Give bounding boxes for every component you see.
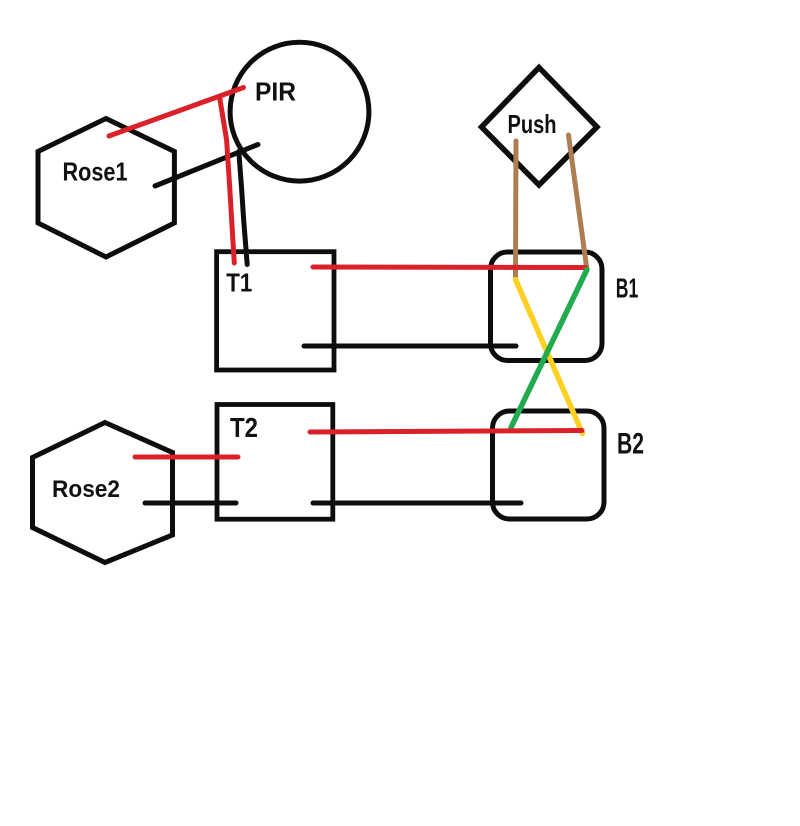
lamp B2 (rounded square)	[493, 411, 605, 519]
ceiling rose Rose1 (hexagon)	[38, 119, 174, 258]
wire yellow B1 to B2	[516, 280, 583, 434]
PIR sensor (circle)	[230, 42, 369, 181]
wire black Rose2 to T2 (neutral)	[145, 501, 236, 506]
wire black T1 to B1 (neutral)	[304, 344, 516, 349]
lamp B1 (rounded square)	[491, 252, 603, 361]
transformer T2 (square)	[217, 405, 333, 520]
wire brown Push to B1 left	[513, 141, 519, 279]
svg-text:Rose2: Rose2	[52, 476, 120, 503]
svg-text:Rose1: Rose1	[63, 157, 128, 187]
wire green B1 to B2	[511, 270, 587, 428]
wire black PIR to T1 (neutral)	[239, 152, 247, 265]
svg-text:T1: T1	[226, 270, 252, 298]
push switch Push (diamond)	[482, 68, 598, 186]
wire red T2 to B2 (live)	[310, 431, 582, 433]
wire black T2 to B2 (neutral)	[313, 501, 521, 506]
svg-text:PIR: PIR	[255, 79, 296, 107]
svg-text:Push: Push	[508, 109, 557, 139]
wire red Rose2 to T2 (live)	[135, 455, 238, 460]
svg-text:B2: B2	[617, 428, 644, 461]
ceiling rose Rose2 (hexagon)	[33, 423, 173, 563]
wire brown Push to B1 right	[569, 135, 588, 270]
wire black Rose1 to PIR (neutral)	[155, 145, 258, 187]
transformer T1 (square)	[217, 252, 334, 370]
svg-text:B1: B1	[616, 273, 639, 304]
wire red drop junction to T1 (live)	[220, 97, 235, 264]
svg-text:T2: T2	[230, 412, 258, 443]
wire red Rose1 to PIR junction (live)	[109, 88, 244, 137]
wire red T1 to B1 (live)	[313, 265, 586, 271]
